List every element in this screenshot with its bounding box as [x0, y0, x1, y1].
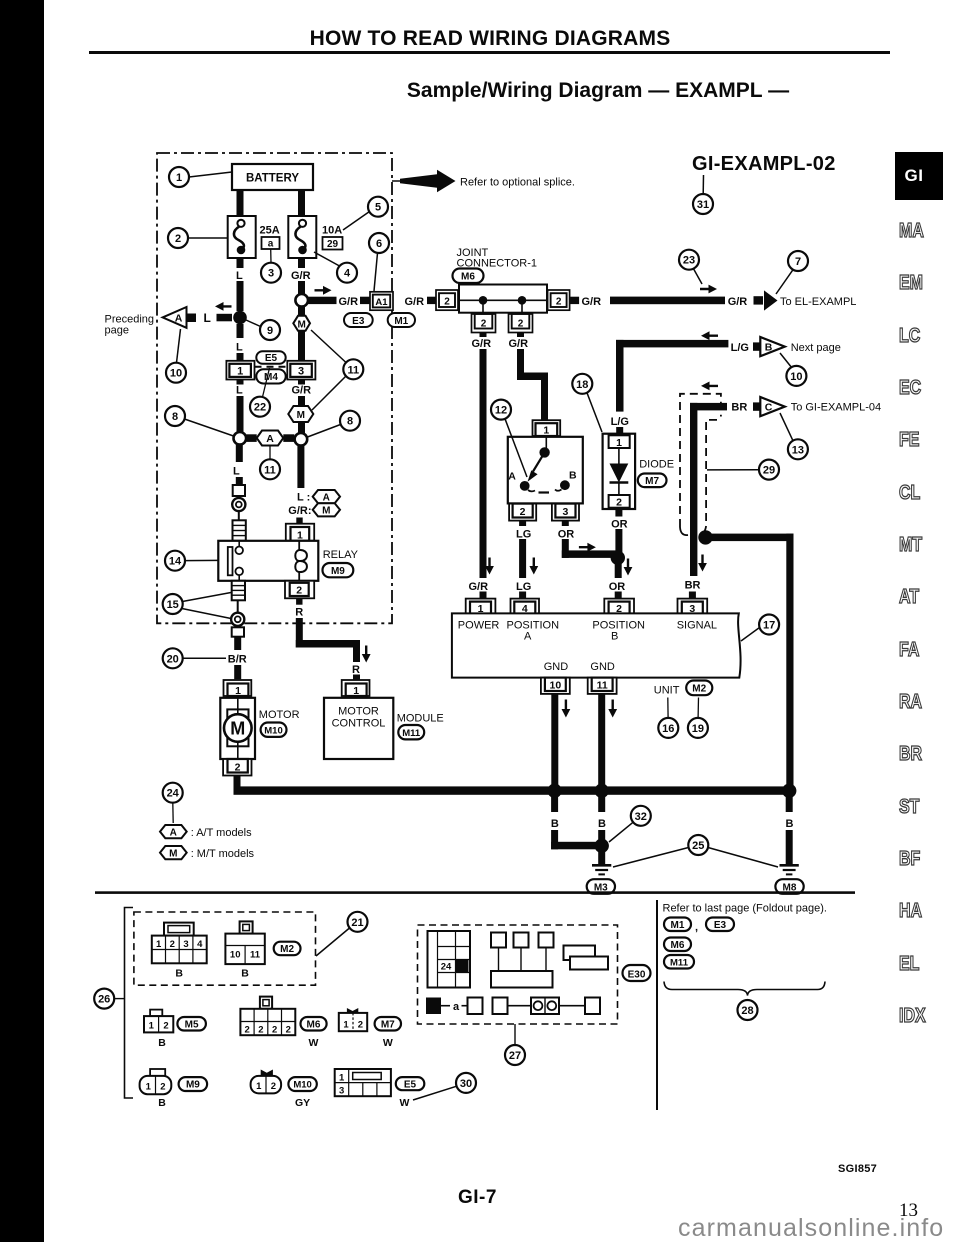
svg-text:M: M	[230, 719, 245, 739]
bottom left bracket	[115, 908, 133, 1099]
section code MT	[899, 534, 947, 557]
label G/R below joint right	[509, 338, 529, 350]
svg-text:21: 21	[351, 917, 363, 929]
svg-text:11: 11	[250, 950, 261, 961]
connector id oval M5	[158, 1017, 206, 1049]
svg-text:29: 29	[327, 239, 339, 250]
connector id oval M11	[398, 725, 424, 739]
wire OR below diode	[615, 508, 622, 554]
svg-text:A: A	[175, 313, 183, 325]
callout circle 14	[165, 551, 218, 571]
callout circle 10	[166, 329, 186, 383]
junction dot BR	[698, 530, 712, 544]
svg-text:27: 27	[509, 1050, 521, 1062]
motor connector pin 1	[224, 680, 252, 697]
arrow down GND 10	[562, 700, 571, 718]
connector id oval M8	[775, 879, 803, 894]
refer to optional splice arrow	[392, 170, 575, 192]
callout circle 12	[491, 400, 527, 477]
label LG below pin 2	[516, 528, 531, 540]
svg-text:,: ,	[695, 922, 698, 934]
section code BR	[899, 743, 947, 766]
relay connector pin 2	[285, 581, 314, 599]
svg-text:M9: M9	[186, 1080, 200, 1091]
stacked relay rects view	[564, 946, 609, 970]
svg-text:2: 2	[481, 319, 487, 330]
svg-text:G/R: G/R	[339, 296, 359, 308]
control unit pin 10 GND	[541, 678, 570, 694]
left black edge bar	[0, 0, 44, 1242]
page title	[90, 27, 890, 51]
svg-text:B: B	[598, 818, 606, 830]
label R above module	[352, 664, 360, 676]
svg-text:L/G: L/G	[611, 416, 629, 428]
fuse number box a	[262, 237, 280, 250]
svg-text:L :: L :	[297, 492, 310, 504]
callout circle 4	[314, 252, 357, 283]
label RELAY	[323, 549, 359, 561]
callout circle 18	[572, 374, 602, 432]
svg-text:10: 10	[550, 680, 562, 692]
label G/R above POWER pin	[469, 581, 489, 593]
svg-text:W: W	[309, 1037, 319, 1049]
svg-text:11: 11	[597, 680, 608, 692]
svg-text:C: C	[765, 402, 773, 414]
label BR at wire end	[731, 402, 747, 414]
svg-text:2: 2	[272, 1024, 277, 1035]
wire battery right post	[298, 190, 305, 216]
svg-text:1: 1	[235, 685, 241, 697]
diode D1 box	[603, 434, 636, 509]
callout circle 1	[169, 167, 232, 187]
callout circle 6	[369, 233, 389, 291]
fuse block view	[428, 931, 471, 988]
svg-text:2: 2	[520, 506, 526, 518]
callout circle 29	[707, 460, 779, 480]
fuse rating 10A	[322, 225, 342, 237]
svg-text:M: M	[169, 849, 177, 860]
svg-text:MOTOR: MOTOR	[259, 709, 300, 721]
wire G/R below connector 3	[298, 380, 305, 407]
section code LC	[899, 325, 947, 348]
arrow down below BR dot	[698, 555, 707, 572]
switch connector pin 2	[509, 504, 536, 521]
label L/G above diode	[611, 416, 629, 428]
connector id oval M4	[256, 369, 285, 383]
page code GI-7	[458, 1187, 497, 1209]
relay contact terminals	[235, 541, 243, 581]
label To GI-EXAMPL-04	[791, 402, 881, 414]
wire L connector1 to junction	[237, 380, 244, 433]
svg-text:6: 6	[376, 238, 382, 250]
svg-text:2: 2	[245, 1024, 250, 1035]
svg-text:Refer to optional splice.: Refer to optional splice.	[460, 177, 575, 189]
label G/R: with hexagon M	[288, 503, 340, 517]
wire B drop right	[786, 795, 793, 864]
connector id oval M2	[686, 681, 712, 696]
label G/R	[339, 296, 359, 308]
svg-text:A: A	[266, 433, 274, 445]
svg-text:G/R: G/R	[509, 338, 529, 350]
wire BR corner to GI-EXAMPL-04	[690, 403, 727, 576]
wire stub A1 to joint 2 box	[427, 297, 437, 304]
connector id oval M10 view	[288, 1077, 316, 1109]
svg-text:10: 10	[170, 368, 182, 380]
switch contact A	[508, 471, 535, 492]
section code EL	[899, 953, 947, 976]
label POWER	[458, 619, 500, 631]
svg-text:1: 1	[156, 939, 162, 950]
callout circle 22	[250, 368, 270, 417]
switch S1 body	[508, 437, 583, 504]
switch contact dash	[539, 491, 550, 493]
svg-text:1: 1	[256, 1081, 262, 1092]
callout circle 17	[741, 615, 779, 642]
svg-text:B: B	[569, 470, 577, 482]
svg-text:2: 2	[235, 761, 241, 773]
connector id oval M7 view	[375, 1017, 401, 1049]
svg-text:M: M	[322, 506, 330, 517]
switch contact B	[555, 470, 577, 491]
svg-text:A: A	[524, 631, 532, 643]
svg-text:UNIT: UNIT	[654, 684, 680, 696]
section code IDX	[899, 1005, 947, 1028]
wire G/R drop right from joint	[517, 333, 548, 421]
connector view E5	[335, 1069, 391, 1097]
svg-text:2: 2	[258, 1024, 263, 1035]
svg-text:30: 30	[460, 1078, 472, 1090]
arrow down OR wire	[624, 559, 633, 576]
svg-text:M6: M6	[461, 272, 475, 283]
svg-text:LG: LG	[516, 581, 531, 593]
relay connector pin 1	[286, 524, 314, 542]
preceding page triangle A	[163, 307, 196, 328]
wire OR dot to POSITION-B pin	[615, 560, 622, 599]
svg-text:: A/T models: : A/T models	[191, 827, 252, 839]
svg-text:3: 3	[562, 506, 568, 518]
label SIGNAL	[677, 619, 717, 631]
connector view 10-11	[225, 921, 264, 979]
connector id oval E30	[623, 965, 651, 981]
module connector pin 1	[342, 680, 370, 697]
svg-text:BR: BR	[731, 402, 747, 414]
label B right	[786, 818, 794, 830]
wire motor to bus	[234, 776, 241, 790]
connector id oval M6	[453, 269, 484, 284]
label R below relay	[295, 607, 303, 619]
svg-text:2: 2	[616, 497, 622, 509]
svg-text:L/G: L/G	[731, 342, 749, 354]
svg-text:8: 8	[347, 416, 353, 428]
svg-text:23: 23	[683, 255, 695, 267]
label MODULE	[397, 713, 444, 725]
svg-text:L: L	[236, 270, 243, 282]
svg-text:10: 10	[230, 950, 241, 961]
control unit pin 11 GND	[588, 678, 617, 694]
svg-text:To EL-EXAMPL: To EL-EXAMPL	[780, 296, 856, 308]
callout circle 7	[776, 251, 808, 294]
svg-text:A: A	[323, 492, 330, 503]
grommet ring lower	[231, 613, 244, 626]
motor control module U3 body	[324, 698, 393, 759]
svg-text:M9: M9	[331, 566, 345, 577]
svg-text:B/R: B/R	[228, 654, 247, 666]
svg-text:E3: E3	[352, 316, 365, 327]
wire BR down to SIGNAL pin	[689, 592, 696, 600]
svg-text:2: 2	[556, 296, 562, 307]
watermark	[678, 1214, 944, 1243]
relay bracket squares view	[491, 933, 554, 988]
option tag hexagon M above splice	[288, 406, 313, 422]
wire G/R splice down	[298, 307, 305, 316]
connector id oval M11 note	[664, 955, 694, 969]
connector id oval M9 view	[158, 1077, 207, 1109]
wire stub joint right box out	[570, 297, 580, 304]
svg-text:L: L	[233, 466, 240, 478]
svg-text:M2: M2	[280, 944, 294, 955]
next page triangle C	[760, 397, 785, 416]
label OR above POSITION-B pin	[609, 581, 626, 593]
branch to Next page: wire L/G corner	[616, 340, 728, 412]
svg-text:2: 2	[160, 1082, 165, 1093]
wire GND 11 down	[598, 694, 605, 788]
fuse rating 25A	[260, 225, 280, 237]
svg-text:3: 3	[298, 366, 304, 378]
svg-text:8: 8	[172, 411, 178, 423]
svg-text:B: B	[551, 818, 559, 830]
svg-text:To GI-EXAMPL-04: To GI-EXAMPL-04	[791, 402, 881, 414]
svg-text:22: 22	[254, 402, 266, 414]
svg-text:1: 1	[146, 1082, 152, 1093]
arrow left above L splice	[215, 302, 232, 311]
svg-text:2: 2	[358, 1020, 363, 1031]
svg-text:A: A	[508, 471, 516, 483]
fusible link row view	[426, 998, 600, 1015]
svg-text:G/R: G/R	[292, 385, 312, 397]
callout circle 24	[163, 783, 183, 823]
svg-text:R: R	[352, 664, 360, 676]
svg-text:13: 13	[792, 444, 804, 456]
connector id oval E5 view	[396, 1077, 425, 1109]
label L at preceding-page tag	[204, 311, 211, 325]
svg-text:W: W	[383, 1037, 393, 1049]
shield terminal box lower	[232, 627, 244, 636]
wire stub before B triangle	[753, 342, 760, 350]
joint connector left box 2	[436, 290, 458, 310]
svg-text:1: 1	[353, 685, 359, 697]
wire stub to A1	[360, 297, 370, 304]
section code CL	[899, 482, 947, 505]
bottom separator rule	[95, 891, 855, 894]
section code MA	[899, 220, 947, 243]
wire OR below pin 3 corner to splice dot	[562, 521, 618, 558]
ground bus wire	[234, 786, 794, 794]
callout circle 15	[163, 593, 231, 619]
connector A1	[370, 292, 393, 310]
wire B/R to motor	[234, 637, 241, 680]
splice circle G/R top	[295, 294, 308, 307]
svg-text:W: W	[400, 1097, 410, 1109]
section code EC	[899, 377, 947, 400]
connector box 1 (E5/M4)	[226, 361, 254, 380]
svg-text:MODULE: MODULE	[397, 713, 444, 725]
svg-text:1: 1	[543, 425, 549, 437]
wire BR dot to right corner	[706, 534, 794, 542]
svg-text:4: 4	[344, 268, 351, 280]
label GND right	[590, 661, 615, 673]
svg-text:G/R: G/R	[291, 270, 311, 282]
svg-text:L: L	[204, 311, 211, 325]
svg-text:25: 25	[692, 840, 704, 852]
svg-text:B: B	[786, 818, 794, 830]
svg-text:16: 16	[662, 723, 674, 735]
svg-text:Next page: Next page	[791, 342, 841, 354]
svg-text:M: M	[297, 410, 305, 421]
svg-text:M10: M10	[293, 1080, 311, 1091]
joint lower box 2 left	[472, 314, 496, 333]
figure number SGI857	[838, 1163, 877, 1175]
shield terminal box left	[233, 485, 245, 496]
svg-text:7: 7	[795, 256, 801, 268]
splice circle L-A	[234, 432, 247, 445]
connector view M9	[140, 1069, 172, 1094]
svg-text:LG: LG	[516, 528, 531, 540]
section tab GI	[895, 152, 943, 200]
svg-text:2: 2	[296, 585, 302, 597]
bus junction dot right	[782, 784, 796, 798]
joint tap dot left	[479, 296, 488, 313]
svg-text:M7: M7	[645, 476, 659, 487]
svg-text:19: 19	[692, 723, 704, 735]
section code BF	[899, 848, 947, 871]
wire G/R splice to A1	[308, 297, 337, 304]
connector view M6	[240, 997, 295, 1036]
svg-text:BATTERY: BATTERY	[246, 173, 299, 185]
section code AT	[899, 586, 947, 609]
svg-text:POWER: POWER	[458, 619, 500, 631]
svg-text:E5: E5	[404, 1079, 417, 1090]
wire stub before EL arrow	[754, 296, 764, 304]
wire L splice to connector 1	[237, 324, 244, 361]
arrow down R wire	[362, 646, 371, 663]
ground symbol M8	[780, 865, 799, 874]
splice dot B	[595, 839, 609, 853]
svg-text:a: a	[268, 239, 274, 250]
svg-text:20: 20	[167, 653, 179, 665]
switch connector pin 3	[552, 504, 579, 521]
connector view M7	[339, 1008, 367, 1031]
label POSITION B	[592, 619, 645, 642]
diode pin 1	[609, 435, 630, 449]
svg-text:1: 1	[149, 1021, 155, 1032]
wire stub to A triangle	[217, 314, 233, 322]
joint lower box 2 right	[509, 314, 533, 333]
svg-text:26: 26	[98, 994, 110, 1006]
svg-text:17: 17	[763, 620, 775, 632]
wire shield to grommet	[237, 600, 239, 613]
svg-text:24: 24	[167, 788, 180, 800]
callout circle 20	[163, 648, 226, 668]
label UNIT	[654, 684, 680, 696]
connector id oval M10	[261, 723, 287, 737]
svg-text:OR: OR	[611, 519, 628, 531]
callout circle 8 right	[308, 411, 361, 437]
label BR above SIGNAL pin	[685, 579, 701, 591]
connector id oval E3 note	[706, 918, 734, 932]
label POSITION A	[507, 619, 560, 642]
callout circle 21	[316, 912, 368, 956]
svg-text:14: 14	[169, 556, 182, 568]
control unit pin 3 SIGNAL	[678, 599, 708, 615]
wire to ground M3	[598, 850, 605, 865]
section code FA	[899, 639, 947, 662]
battery B1	[232, 164, 313, 190]
connector id oval E3	[344, 313, 373, 327]
callout circle 19	[688, 698, 708, 738]
svg-text:1: 1	[339, 1073, 345, 1084]
label B left	[551, 818, 559, 830]
svg-text:B: B	[241, 968, 249, 980]
dashed box fuse views 27	[418, 925, 618, 1024]
svg-text:M11: M11	[402, 728, 421, 739]
bottom divider line	[656, 900, 658, 1110]
svg-text:B: B	[611, 631, 618, 643]
arrow right above OR wire	[579, 543, 596, 552]
svg-text:10A: 10A	[322, 225, 342, 237]
svg-text:1: 1	[176, 172, 182, 184]
preceding page text	[105, 314, 155, 337]
svg-text:SIGNAL: SIGNAL	[677, 619, 717, 631]
svg-text:3: 3	[183, 939, 188, 950]
svg-text:BR: BR	[685, 579, 701, 591]
svg-text:15: 15	[167, 599, 179, 611]
svg-text:G/R: G/R	[469, 581, 489, 593]
svg-text:OR: OR	[558, 528, 575, 540]
wire L splice to twisted section	[236, 445, 243, 485]
label GND left	[544, 661, 569, 673]
label G/R below connector 3	[292, 385, 312, 397]
motor connector pin 2	[223, 759, 251, 776]
svg-text:1: 1	[237, 366, 243, 378]
label G/R	[291, 270, 311, 282]
wire G/R fuse to splice	[298, 258, 305, 294]
svg-text:POSITION: POSITION	[592, 619, 645, 631]
dashed detail box around BR corner	[680, 394, 721, 536]
horizontal brace	[664, 982, 825, 996]
svg-text:12: 12	[495, 405, 507, 417]
svg-text:A1: A1	[375, 297, 388, 308]
diode pin 2	[609, 495, 630, 509]
connector view 1234	[152, 923, 207, 980]
svg-text:M: M	[298, 319, 306, 330]
label MOTOR CONTROL	[332, 706, 386, 730]
svg-text:3: 3	[339, 1086, 344, 1097]
legend hexagon M	[160, 846, 255, 860]
wire stub into diode	[616, 427, 623, 435]
svg-text:L: L	[236, 385, 243, 397]
arrow left above L/G wire	[701, 331, 718, 340]
svg-text:2: 2	[271, 1081, 276, 1092]
svg-text:B: B	[765, 342, 773, 354]
svg-text:25A: 25A	[260, 225, 280, 237]
fuse F2	[288, 216, 316, 258]
control unit pin 2 POSITION B	[604, 599, 634, 615]
svg-text:3: 3	[268, 268, 274, 280]
connector id oval M6 view	[301, 1017, 327, 1049]
label B/R	[228, 654, 247, 666]
next page triangle B	[760, 337, 785, 356]
motor M1 body	[220, 698, 255, 759]
